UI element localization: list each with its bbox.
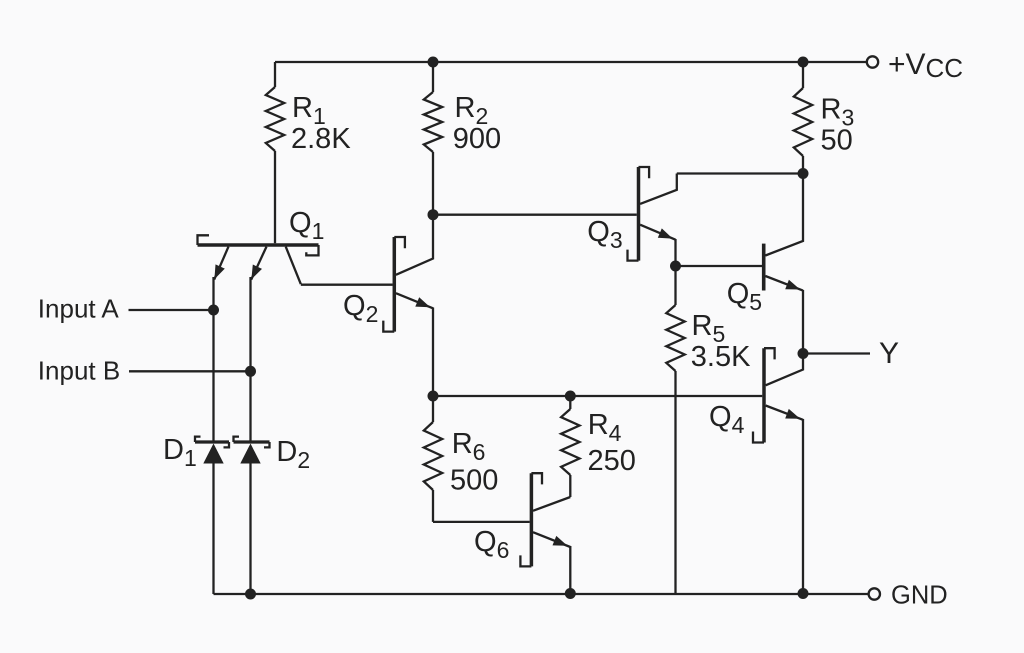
resistor R1 (274, 62, 276, 87)
transistor Q1 emitter 2 (251, 247, 266, 280)
transistor Q4 collector (766, 354, 803, 386)
diode D1 cathode left hook (195, 437, 201, 442)
transistor Q6 base bar (530, 473, 534, 566)
wire: Input A lead (129, 309, 214, 311)
svg-text:250: 250 (588, 445, 636, 477)
transistor Q3 collector (640, 174, 677, 204)
svg-text:3.5K: 3.5K (691, 341, 751, 373)
resistor R5 (674, 266, 676, 305)
wire: Q2 collector node to Q3 base (433, 214, 637, 216)
wire: Q2 emitter node to Q4 base (433, 395, 762, 397)
wire: Input B node to D2 (249, 371, 251, 442)
resistor R3 (802, 62, 804, 88)
svg-text:+VCC: +VCC (888, 48, 963, 83)
svg-text:900: 900 (453, 123, 501, 155)
diode D2 anode triangle (240, 444, 260, 464)
transistor Q1 emitter 1 (214, 247, 228, 280)
wire: Q1 emitter 1 to Input A node (212, 277, 214, 310)
diode D1 cathode bar (195, 440, 229, 443)
transistor Q3 emitter (640, 225, 675, 240)
resistor R6 (432, 396, 434, 422)
junction node Input B (245, 366, 256, 377)
wire: Q5 emitter down to output Y node (802, 290, 804, 354)
junction node: Q4 emitter/ground rail (798, 588, 809, 599)
junction node: D2/ground rail (245, 589, 256, 600)
junction node at R3/top rail (798, 57, 809, 68)
transistor Q1 collector (286, 247, 301, 285)
svg-text:Input A: Input A (38, 294, 120, 324)
resistor R4 (569, 396, 571, 409)
wire: D1 to ground rail (212, 464, 214, 595)
transistor Q4 bar bottom hook (753, 432, 764, 443)
transistor Q4 base bar (762, 348, 766, 442)
junction node: R3/Q3 collector/Q5 collector (798, 168, 809, 179)
transistor Q5 emitter (765, 276, 803, 291)
wire: Q4 emitter to ground rail (802, 419, 804, 594)
svg-text:Y: Y (879, 337, 899, 370)
wire: Input B lead (129, 370, 251, 372)
wire: +VCC top rail (275, 61, 867, 63)
svg-text:500: 500 (450, 465, 498, 497)
transistor Q4 emitter (766, 406, 803, 420)
junction node Input A (208, 305, 219, 316)
wire: Q1 collector to Q2 base (301, 284, 393, 286)
svg-text:50: 50 (821, 125, 853, 157)
transistor Q6 bar top hook (531, 473, 542, 484)
svg-text:2.8K: 2.8K (291, 123, 351, 155)
transistor Q1 bar right hook (306, 245, 318, 255)
svg-text:Input B: Input B (38, 356, 120, 386)
resistor R2 (432, 62, 434, 92)
transistor Q3 bar top hook (639, 167, 650, 178)
wire: node to Q5 base (676, 265, 763, 267)
transistor Q1 bar left hook (198, 235, 210, 245)
terminal +VCC (867, 56, 878, 67)
svg-text:GND: GND (891, 582, 948, 610)
junction node: R4 top (565, 391, 576, 402)
wire: Y node to label (803, 352, 870, 354)
wire: R6 bottom to Q6 base (433, 521, 530, 523)
diode D1 cathode right hook (224, 442, 230, 447)
terminal GND (869, 588, 880, 599)
transistor Q2 bar top hook (394, 237, 405, 248)
transistor Q2 base bar (393, 237, 397, 332)
transistor Q6 emitter (533, 532, 570, 547)
transistor Q4 bar top hook (764, 348, 775, 359)
transistor Q3 bar bottom hook (628, 250, 639, 261)
junction node: R2/Q2 collector/Q3 base (428, 209, 439, 220)
wire: Q1 emitter 2 to Input B node (249, 277, 251, 371)
transistor Q1 base bar (198, 243, 319, 247)
junction node: Q3 emitter/Q5 base/R5 (670, 261, 681, 272)
diode D2 cathode bar (234, 440, 270, 443)
transistor Q2 emitter (396, 293, 433, 308)
transistor Q6 bar bottom hook (520, 555, 531, 566)
junction node: Q6 emitter/ground rail (565, 588, 576, 599)
diode D2 cathode left hook (234, 437, 240, 442)
transistor Q3 base bar (637, 167, 641, 261)
wire: ground rail (214, 593, 870, 595)
transistor Q5 collector (765, 174, 803, 256)
junction node Y (798, 348, 809, 359)
wire: Input A node to D1 (212, 310, 214, 442)
transistor Q2 bar bottom hook (383, 321, 394, 332)
diode D1 anode triangle (203, 444, 223, 464)
transistor Q5 base bar (762, 244, 766, 291)
wire: Q6 emitter to ground rail (569, 546, 571, 594)
diode D2 cathode right hook (264, 442, 270, 447)
wire: D2 to ground rail (249, 464, 251, 595)
junction node at R2/top rail (428, 57, 439, 68)
wire: Q3 collector to R3 node (677, 172, 803, 174)
wire: Q3 emitter to Q5 base node (674, 239, 676, 266)
junction node: Q2 emitter/R6 (428, 391, 439, 402)
transistor Q6 collector (533, 497, 570, 511)
wire: Q2 emitter down to squaring network (432, 308, 434, 397)
transistor Q2 collector (396, 215, 433, 275)
